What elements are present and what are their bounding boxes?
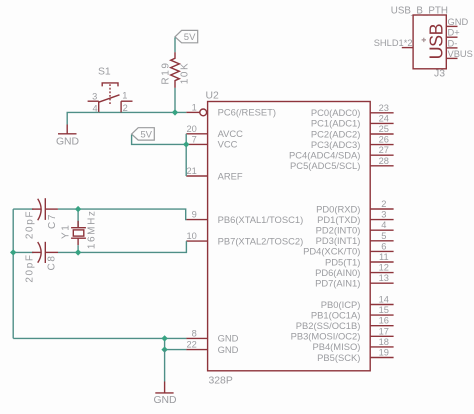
- svg-text:PC4(ADC4/SDA): PC4(ADC4/SDA): [289, 150, 360, 161]
- svg-text:USB: USB: [427, 23, 447, 59]
- U2 pin 8 GND: [186, 328, 238, 343]
- svg-text:20pF: 20pF: [25, 253, 36, 282]
- svg-text:PC6(/RESET): PC6(/RESET): [218, 107, 276, 118]
- svg-text:PD7(AIN1): PD7(AIN1): [315, 278, 360, 289]
- wire R19 to RESET net: [174, 88, 176, 113]
- wire XTAL1 net (pin 9 to C7/Y1): [58, 209, 187, 220]
- svg-text:PC2(ADC2): PC2(ADC2): [311, 128, 361, 139]
- junction Y1 bottom: [75, 249, 81, 255]
- svg-text:1: 1: [192, 102, 197, 112]
- svg-text:J3: J3: [434, 68, 445, 79]
- svg-text:GND: GND: [448, 17, 469, 27]
- svg-text:C8: C8: [47, 255, 58, 271]
- junction rail/C8: [10, 249, 16, 255]
- svg-text:PB7(XTAL2/TOSC2): PB7(XTAL2/TOSC2): [218, 235, 304, 246]
- svg-text:U2: U2: [206, 91, 220, 102]
- svg-text:PB2(SS/OC1B): PB2(SS/OC1B): [296, 320, 361, 331]
- svg-text:27: 27: [379, 145, 389, 155]
- svg-text:D+: D+: [448, 28, 460, 38]
- svg-text:14: 14: [379, 295, 389, 305]
- svg-text:PC5(ADC5/SCL): PC5(ADC5/SCL): [290, 160, 360, 171]
- svg-text:PB5(SCK): PB5(SCK): [317, 352, 360, 363]
- USB pin VBUS: [446, 49, 473, 59]
- svg-text:PD6(AIN0): PD6(AIN0): [315, 267, 360, 278]
- junction GND pin 22: [161, 346, 167, 352]
- U2 pin 20 AVCC: [186, 124, 243, 139]
- svg-text:PC1(ADC1): PC1(ADC1): [311, 118, 361, 129]
- USB connector J3: [391, 5, 448, 79]
- junction Y1 top: [75, 206, 81, 212]
- svg-text:PD0(RXD): PD0(RXD): [316, 203, 360, 214]
- U2 right pins 2-6,11-13 PD0-PD7: [303, 199, 394, 289]
- wire GND pin 8 to pin 22: [165, 338, 187, 349]
- wire XTAL2 net (pin 10 to C8/Y1): [58, 241, 186, 252]
- svg-text:PB3(MOSI/OC2): PB3(MOSI/OC2): [291, 331, 361, 342]
- U2 pin 1 PC6(/RESET): [186, 102, 276, 117]
- capacitor C8 20pF: [25, 242, 58, 283]
- wire switch to GND: [67, 112, 99, 124]
- svg-text:10: 10: [186, 231, 196, 241]
- resistor R19 10K: [160, 52, 190, 88]
- junction RESET/R19: [172, 109, 178, 115]
- USB pin D-: [446, 38, 457, 48]
- U2 pin 22 GND: [186, 340, 238, 355]
- U2 right pins 14-19 PB0-PB5: [291, 295, 394, 363]
- svg-text:C7: C7: [47, 213, 58, 229]
- svg-text:VBUS: VBUS: [448, 49, 473, 59]
- junction GND pin 8: [161, 335, 167, 341]
- svg-text:Y1: Y1: [61, 224, 72, 239]
- svg-text:21: 21: [186, 166, 196, 176]
- U2 pin 7 VCC: [186, 134, 237, 149]
- ground symbol (bottom): [153, 382, 176, 407]
- svg-text:PD5(T1): PD5(T1): [325, 256, 360, 267]
- svg-text:PD2(INT0): PD2(INT0): [316, 225, 361, 236]
- svg-text:PD1(TXD): PD1(TXD): [317, 214, 360, 225]
- svg-text:15: 15: [379, 305, 389, 315]
- svg-text:PD4(XCK/T0): PD4(XCK/T0): [303, 246, 360, 257]
- svg-text:17: 17: [379, 326, 389, 336]
- svg-text:PC0(ADC0): PC0(ADC0): [311, 107, 361, 118]
- capacitor C7 20pF: [25, 198, 59, 239]
- svg-text:1: 1: [122, 90, 127, 100]
- svg-text:VCC: VCC: [218, 139, 238, 150]
- wire GND net to pin 8: [13, 337, 186, 339]
- microcontroller U2 body: [206, 91, 371, 387]
- svg-text:AREF: AREF: [218, 170, 243, 181]
- svg-text:3: 3: [92, 92, 97, 102]
- svg-text:5: 5: [381, 231, 386, 241]
- svg-text:S1: S1: [98, 67, 111, 78]
- wire RESET net (switch to pin 1): [99, 111, 187, 113]
- svg-text:4: 4: [381, 220, 386, 230]
- U2 pin 9 PB6(XTAL1/TOSC1): [186, 210, 303, 225]
- svg-text:3: 3: [381, 210, 386, 220]
- svg-text:5V: 5V: [184, 32, 196, 43]
- svg-text:26: 26: [379, 135, 389, 145]
- USB pin D+: [446, 28, 459, 38]
- switch S1: [88, 67, 133, 114]
- USB pin SHLD1*2: [374, 38, 413, 48]
- svg-text:28: 28: [379, 156, 389, 166]
- svg-text:GND: GND: [218, 333, 239, 344]
- svg-text:8: 8: [192, 328, 197, 338]
- wire left ground rail: [12, 209, 14, 338]
- svg-text:11: 11: [379, 252, 389, 262]
- wire 5V to VCC/AVCC/AREF: [132, 135, 187, 145]
- svg-text:5V: 5V: [140, 130, 152, 141]
- svg-text:2: 2: [381, 199, 386, 209]
- svg-text:GND: GND: [218, 344, 239, 355]
- svg-text:9: 9: [192, 210, 197, 220]
- U2 right pins 23-28 PC0-PC5: [289, 103, 394, 171]
- svg-text:328P: 328P: [209, 376, 233, 387]
- svg-text:23: 23: [379, 103, 389, 113]
- svg-text:R19: R19: [160, 61, 171, 84]
- svg-text:PD3(INT1): PD3(INT1): [316, 235, 361, 246]
- wire C8 left to rail: [13, 251, 33, 253]
- svg-text:7: 7: [192, 134, 197, 144]
- U2 pin 10 PB7(XTAL2/TOSC2): [186, 231, 303, 246]
- svg-text:6: 6: [381, 241, 386, 251]
- svg-text:PB0(ICP): PB0(ICP): [321, 299, 361, 310]
- svg-text:20: 20: [186, 124, 196, 134]
- svg-text:16MHz: 16MHz: [86, 209, 97, 249]
- svg-text:SHLD1*2: SHLD1*2: [374, 38, 413, 48]
- junction VCC: [183, 141, 189, 147]
- supply 5V flag (top, above R19): [175, 30, 198, 43]
- wire 5V to R19: [174, 38, 176, 53]
- svg-text:10K: 10K: [180, 62, 191, 85]
- U2 pin 21 AREF: [186, 166, 243, 181]
- svg-text:18: 18: [379, 337, 389, 347]
- svg-text:GND: GND: [153, 395, 176, 406]
- wire GND drop: [164, 350, 166, 382]
- USB pin GND: [446, 17, 468, 27]
- svg-text:PB1(OC1A): PB1(OC1A): [311, 309, 361, 320]
- svg-text:20pF: 20pF: [25, 210, 36, 239]
- svg-text:PB4(MISO): PB4(MISO): [312, 341, 360, 352]
- supply 5V flag (VCC): [132, 128, 155, 141]
- svg-text:GND: GND: [56, 136, 79, 147]
- svg-text:2: 2: [123, 103, 128, 113]
- svg-text:13: 13: [379, 273, 389, 283]
- svg-text:PC3(ADC3): PC3(ADC3): [311, 139, 361, 150]
- svg-text:D-: D-: [448, 38, 458, 48]
- svg-text:AVCC: AVCC: [218, 128, 244, 139]
- svg-text:PB6(XTAL1/TOSC1): PB6(XTAL1/TOSC1): [218, 214, 304, 225]
- svg-text:25: 25: [379, 124, 389, 134]
- svg-text:12: 12: [379, 263, 389, 273]
- svg-text:16: 16: [379, 316, 389, 326]
- svg-text:24: 24: [379, 113, 389, 123]
- wire C7 left to rail: [13, 208, 33, 210]
- wire AVCC-AREF vertical: [185, 134, 187, 176]
- ground symbol (left of switch): [56, 125, 79, 148]
- svg-text:22: 22: [186, 340, 196, 350]
- svg-text:19: 19: [379, 348, 389, 358]
- crystal Y1 16MHz: [61, 209, 98, 252]
